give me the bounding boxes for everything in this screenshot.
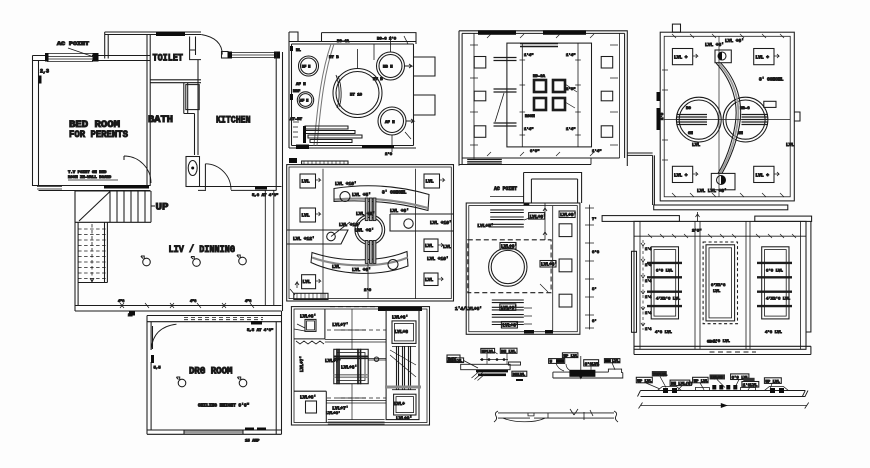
circle left	[676, 97, 721, 142]
kitchen door arc top	[201, 35, 222, 55]
right panel slats vertical	[392, 346, 416, 389]
svg-text:LVL +8': LVL +8'	[356, 211, 375, 217]
living right wall inner lines	[265, 191, 274, 306]
TV point underline	[68, 179, 118, 181]
top slat 2	[490, 217, 524, 220]
leader top-right circle	[391, 36, 409, 52]
dark square TR	[553, 80, 565, 92]
window bedroom bottom	[37, 187, 62, 190]
detail1 right step bar	[508, 362, 520, 365]
DRG bottom wall	[147, 430, 282, 434]
plan A curved wall (gray double)	[314, 44, 334, 146]
top-left room	[294, 309, 325, 339]
wall bedroom top	[33, 56, 151, 61]
black tick below tab corner	[524, 203, 530, 205]
bedroom door leaf	[123, 156, 125, 160]
detail1 dark cluster rows	[476, 370, 508, 373]
bottom band dashed center	[710, 351, 757, 353]
right panel outer	[386, 311, 419, 420]
plan D outer rect	[459, 31, 627, 166]
black tick kitchen bottom	[255, 187, 267, 190]
panel right bars	[757, 263, 792, 306]
svg-text:AF H: AF H	[385, 121, 395, 125]
plan E right mid square	[764, 101, 776, 107]
DRG bottom window band	[184, 431, 243, 435]
plan E left wall black marks	[657, 92, 661, 101]
geyser oval	[188, 161, 197, 176]
detail3 left notch	[695, 388, 709, 391]
svg-text:7': 7'	[592, 217, 597, 222]
LVL square MR	[424, 239, 438, 252]
inner curved detail in big circle	[336, 75, 339, 108]
svg-text:LVL +: LVL +	[674, 172, 688, 178]
DRG top dashed window	[184, 318, 263, 320]
plan B bottom center line	[367, 262, 369, 299]
svg-text:LVL+8': LVL+8'	[326, 411, 340, 416]
svg-text:LVL: LVL	[425, 243, 433, 249]
LVL square TR	[754, 49, 774, 65]
dimension line right of F	[589, 205, 591, 330]
tick marks on line	[648, 234, 796, 238]
LVL square BR	[754, 166, 774, 182]
UP leader	[151, 205, 155, 207]
plan F outer rect	[466, 203, 580, 334]
svg-text:DNLVL: DNLVL	[513, 374, 526, 378]
right strip verticals	[552, 206, 554, 332]
plan B inner verticals	[323, 169, 416, 299]
svg-text:4'6 LVL: 4'6 LVL	[765, 330, 782, 335]
detail1 chain row	[481, 358, 484, 361]
svg-text:1'4": 1'4"	[524, 53, 534, 58]
plan C leader diagonals right	[390, 350, 416, 377]
leader bottom-right circle	[392, 132, 411, 152]
svg-text:LVL: LVL	[443, 244, 451, 250]
tick crosses on walls	[470, 45, 618, 145]
svg-text:3' CONCEL: 3' CONCEL	[382, 190, 407, 196]
detail3 left cluster	[657, 387, 681, 391]
svg-text:BATH: BATH	[148, 115, 173, 126]
panel center frame	[706, 245, 735, 321]
bottom-left room	[294, 391, 326, 422]
plan F top tab	[524, 173, 582, 204]
left protrusion	[287, 230, 348, 244]
svg-text:1'4/LVL+8': 1'4/LVL+8'	[455, 306, 482, 312]
detail2 main bar	[553, 369, 623, 378]
detail2 vertical leader	[580, 356, 582, 378]
right squares	[601, 57, 613, 69]
svg-text:T.V POINT ON BED: T.V POINT ON BED	[68, 171, 107, 175]
bottom slats	[492, 300, 524, 303]
plan D right inner vertical	[619, 33, 621, 158]
svg-text:RB-6: RB-6	[740, 107, 750, 111]
tick crosses on inner verticals	[520, 60, 581, 135]
leader left	[331, 222, 350, 237]
detail2 dark cluster	[569, 370, 595, 377]
plan E top-left tab	[672, 24, 680, 32]
svg-text:LVL+8': LVL+8'	[300, 314, 316, 320]
right panel gray band	[385, 386, 421, 389]
plan G divider 1	[695, 221, 700, 349]
detail4 right marks	[570, 409, 593, 420]
DRG top wall	[147, 316, 282, 322]
svg-text:6'0 LVL: 6'0 LVL	[656, 269, 673, 274]
svg-text:2'0: 2'0	[385, 152, 393, 157]
detail1 label box DN LVL	[500, 348, 517, 353]
svg-text:AT-BT: AT-BT	[290, 118, 303, 122]
detail3 label boxes	[636, 377, 652, 383]
bottom-left inner square	[306, 401, 317, 413]
plan G right wall inner	[800, 221, 802, 349]
band top anchor box	[715, 50, 731, 63]
svg-text:RB H: RB H	[383, 66, 393, 70]
slats right circle	[742, 115, 769, 125]
plan E left wall arrows	[662, 70, 668, 160]
svg-text:AF H: AF H	[296, 83, 306, 87]
zigzag below top-left room	[296, 341, 324, 344]
svg-text:LVL: LVL	[426, 179, 434, 185]
svg-text:LVL+7': LVL+7'	[299, 356, 305, 372]
svg-text:ROOM: ROOM	[525, 115, 535, 119]
kitchen door leaf	[204, 164, 206, 190]
window end caps	[45, 53, 49, 62]
dark square TL	[534, 80, 546, 92]
svg-text:LVL +: LVL +	[674, 55, 688, 61]
svg-text:CEILING HEIGHT 9'6": CEILING HEIGHT 9'6"	[198, 403, 250, 409]
upper curved band	[334, 186, 429, 211]
boxed label LVL+8 bottom	[501, 322, 517, 329]
switch tick bedroom left wall	[39, 76, 42, 84]
detail3 main bar	[638, 391, 809, 397]
svg-text:ROOM IN-WALL BOARD: ROOM IN-WALL BOARD	[68, 176, 112, 180]
plan C side label right (B2X)	[447, 355, 460, 362]
stair lower bottom	[78, 282, 107, 284]
svg-text:LVL: LVL	[612, 360, 620, 364]
plan E outer rect	[660, 32, 794, 201]
svg-text:2'6": 2'6"	[692, 229, 702, 234]
svg-text:1'4: 1'4	[645, 311, 651, 316]
right protrusion	[390, 214, 454, 231]
stair center dashed rail	[91, 224, 93, 282]
slats left circle	[676, 115, 707, 125]
center vertical line	[718, 36, 720, 197]
wall bedroom left (double)	[33, 56, 39, 187]
svg-text:LVL +5': LVL +5'	[352, 192, 371, 198]
svg-text:HT B: HT B	[373, 78, 383, 82]
plan G left tab band	[602, 216, 679, 222]
svg-text:LVL +9': LVL +9'	[725, 38, 744, 44]
svg-text:6H: 6H	[688, 132, 693, 136]
geyser dot	[191, 167, 194, 170]
vertical slats below circle	[365, 241, 376, 264]
svg-text:LVL +10': LVL +10'	[430, 220, 452, 226]
band bottom anchor box	[711, 173, 735, 189]
circle top-right	[377, 52, 405, 80]
plan C center vertical line	[338, 309, 366, 420]
detail3 right notch	[741, 388, 756, 391]
leader diagonals from squares	[565, 84, 577, 108]
plan E right tab	[794, 112, 800, 121]
plan B outer rect	[287, 165, 454, 301]
boxed label LVL+9 top right	[559, 211, 575, 218]
detail1 label box 6'0LVL	[447, 358, 464, 363]
AC POINT leader	[68, 48, 94, 57]
plan A small arrows left	[293, 122, 299, 137]
svg-text:1'4: 1'4	[645, 279, 651, 284]
svg-text:LVL+7': LVL+7'	[332, 406, 348, 412]
svg-text:LVL +: LVL +	[756, 172, 770, 178]
svg-text:LVL+9': LVL+9'	[560, 212, 576, 218]
svg-text:HT 10: HT 10	[350, 94, 363, 98]
plan E tick marks top/bottom walls	[672, 34, 784, 197]
svg-text:KITCHEN: KITCHEN	[216, 116, 251, 127]
left jog rect	[632, 251, 637, 332]
svg-text:AC POINT: AC POINT	[494, 185, 518, 192]
panel left outer	[651, 247, 678, 319]
center square outer	[334, 349, 368, 383]
svg-text:LVL+6: LVL+6	[395, 329, 409, 335]
plan D left inner vertical	[473, 33, 475, 158]
plan D bottom inner hatch	[467, 160, 502, 165]
corridor solid lines	[325, 340, 386, 404]
svg-text:1'4: 1'4	[645, 295, 651, 300]
svg-text:FOR PERENTS: FOR PERENTS	[69, 130, 128, 141]
dark square BR	[553, 98, 565, 110]
left bar group 3	[494, 123, 517, 126]
plan E mid horizontal segments	[664, 119, 790, 121]
svg-text:6'6: 6'6	[592, 250, 600, 255]
svg-text:LVL+9': LVL+9'	[501, 305, 517, 311]
svg-text:4"6: 4"6	[245, 299, 251, 304]
svg-text:LVL+6': LVL+6'	[341, 365, 357, 371]
svg-text:AC POINT: AC POINT	[57, 40, 90, 47]
svg-text:5,5 AT 4'6": 5,5 AT 4'6"	[247, 328, 273, 333]
kitchen door frame square	[222, 52, 229, 59]
detail3 dimension line	[639, 403, 809, 409]
slat black ends	[303, 126, 306, 143]
plan A top-left tab	[289, 32, 298, 42]
top slat 3	[490, 224, 524, 227]
DRG right wall	[276, 311, 281, 434]
svg-text:DRG ROOM: DRG ROOM	[189, 367, 233, 378]
svg-text:LVL+8': LVL+8'	[300, 395, 316, 401]
svg-text:UPLVL: UPLVL	[482, 350, 495, 354]
svg-text:LVL: LVL	[332, 264, 340, 270]
detail4 right squiggle	[614, 411, 618, 422]
lower curved band	[311, 252, 408, 274]
svg-text:UP LVL: UP LVL	[563, 355, 578, 359]
svg-text:6'X2'6: 6'X2'6	[711, 283, 726, 288]
wall bedroom right / bath left (double)	[147, 35, 150, 187]
plan F bottom black marks	[524, 330, 534, 334]
plan A bottom black marks	[296, 145, 309, 150]
svg-text:LVL+6': LVL+6'	[541, 262, 557, 268]
plan C top dark band	[378, 307, 422, 311]
svg-text:LVL +12': LVL +12'	[293, 236, 315, 242]
black tick living wall left	[129, 311, 135, 316]
plan G left wall inner	[639, 221, 641, 349]
svg-text:LVL +8': LVL +8'	[705, 42, 724, 48]
svg-text:UP LVL: UP LVL	[765, 380, 780, 384]
plan G divider 2	[746, 221, 750, 349]
svg-text:8': 8'	[592, 287, 597, 292]
left bar group 2	[494, 89, 517, 92]
svg-text:LVL: LVL	[692, 142, 700, 148]
circle right	[723, 97, 768, 142]
svg-text:1'4: 1'4	[645, 247, 651, 252]
kitchen bottom wall right part	[231, 189, 276, 191]
svg-text:LVL +: LVL +	[756, 55, 770, 61]
svg-text:BH: BH	[738, 132, 743, 136]
svg-text:LVL+5': LVL+5'	[477, 223, 493, 229]
circle in upper band	[340, 192, 350, 202]
arrow marks right circles	[404, 64, 414, 123]
svg-text:DN LVL: DN LVL	[501, 350, 516, 354]
fan symbol 3	[239, 257, 247, 265]
detail1 DN LVL box right	[512, 371, 527, 376]
plan B corner arrow	[290, 282, 299, 295]
svg-text:LVL+7': LVL+7'	[332, 322, 348, 328]
svg-text:1'4": 1'4"	[566, 53, 576, 58]
boxed label LVL+9 bottom	[500, 304, 516, 311]
svg-text:LVL: LVL	[302, 213, 310, 219]
panel left bars	[647, 263, 682, 306]
left bar group 1	[494, 58, 517, 61]
DRG left wall	[147, 316, 151, 435]
svg-text:LVL: LVL	[713, 290, 721, 294]
plan G bottom band	[634, 346, 811, 354]
svg-text:6'0LVL: 6'0LVL	[448, 359, 463, 364]
svg-text:BC-4A: BC-4A	[337, 40, 350, 44]
svg-text:6': 6'	[592, 319, 597, 324]
wall living bottom (double)	[75, 306, 282, 312]
plan D top black bars	[478, 30, 516, 35]
detail4 tick	[547, 413, 549, 418]
bedroom door arc (bottom right)	[124, 156, 151, 183]
black mark below plan A corner	[289, 158, 297, 163]
switch tick DRG left	[151, 355, 154, 363]
detail2 box UP LVL right	[604, 359, 620, 363]
dashed rect	[468, 240, 551, 293]
svg-text:LVL+9': LVL+9'	[530, 214, 546, 220]
svg-text:6'0": 6'0"	[530, 149, 540, 154]
band top anchor circle	[718, 52, 726, 60]
detail2 label UP LVL box	[562, 353, 578, 358]
svg-text:1'4: 1'4	[645, 327, 651, 332]
geyser fixture rect	[186, 157, 200, 187]
svg-text:LVL+7': LVL+7'	[325, 358, 341, 364]
plan A left wall black ticks	[290, 46, 293, 51]
band bottom anchor circle	[717, 176, 726, 185]
closet left wall	[105, 32, 109, 59]
plan G tick line	[634, 235, 806, 237]
wall kitchen bottom	[198, 187, 282, 191]
detail4 left squiggle	[494, 411, 498, 422]
center square inner	[337, 353, 365, 381]
svg-text:1'4": 1'4"	[566, 127, 576, 132]
fan symbol drg 1	[178, 379, 186, 387]
svg-text:RF H: RF H	[302, 66, 310, 70]
svg-text:4"6: 4"6	[118, 299, 124, 304]
detail1 leader from box	[464, 361, 478, 369]
stair upper treads	[110, 191, 151, 222]
plan A bottom wall	[289, 146, 416, 149]
svg-text:AF H: AF H	[300, 100, 308, 104]
svg-text:RBF: RBF	[293, 90, 301, 94]
DRG door arc	[151, 324, 176, 349]
connector square to right panel	[368, 359, 386, 361]
svg-text:2'0": 2'0"	[566, 87, 576, 92]
black ticks DRG bottom	[245, 428, 254, 431]
stair landing rect	[75, 191, 151, 222]
svg-text:UP: UP	[156, 203, 169, 214]
svg-text:BC-6 2'0: BC-6 2'0	[377, 37, 397, 42]
circle bottom-right	[378, 107, 406, 135]
svg-text:2,3: 2,3	[40, 69, 49, 75]
fan symbol 2	[193, 259, 201, 267]
fan symbol drg 2	[239, 379, 247, 387]
detail1 small mark	[516, 379, 523, 381]
circle top-left	[299, 56, 319, 76]
LVL square ML	[300, 208, 316, 222]
ledge left of tab	[490, 197, 524, 203]
svg-text:BL: BL	[296, 49, 301, 53]
curved band line 1	[721, 63, 741, 174]
svg-text:LVL: LVL	[786, 142, 794, 148]
plan G top band	[654, 205, 788, 210]
detail3 center dark marks	[712, 385, 716, 390]
detail1 label box UP LVL	[481, 348, 495, 353]
DRG left wall lower	[150, 362, 152, 430]
svg-text:LVL: LVL	[302, 179, 310, 185]
toilet duct niche	[190, 37, 201, 60]
LVL square BR	[424, 273, 438, 286]
leader line big circle label	[358, 44, 375, 69]
detail3 dim arrow center	[721, 403, 728, 408]
vertical slats above circle	[365, 198, 376, 221]
right squares	[559, 224, 572, 237]
plan D inner big rect	[507, 43, 592, 147]
plan A right wall segments	[414, 57, 436, 115]
boxed label LVL+6 right	[540, 261, 556, 268]
detail4 middle step	[528, 413, 534, 416]
svg-text:2'0: 2'0	[660, 112, 665, 120]
boxed label LVL+6	[500, 243, 516, 250]
detail4 sag curve	[503, 418, 545, 422]
svg-text:TOILET: TOILET	[153, 54, 184, 65]
svg-text:LVL +18': LVL +18'	[339, 222, 361, 228]
wall toilet bottom	[150, 80, 201, 83]
LVL square BL	[302, 275, 316, 289]
bold wall segment below TV point	[104, 185, 149, 189]
lower band gray stripe	[312, 258, 408, 266]
plan F leader arrows	[524, 217, 548, 324]
plan C outer rect	[291, 307, 429, 425]
window caps kitchen	[228, 52, 232, 59]
vent black bar toilet top	[156, 32, 185, 36]
plan G right outer line	[806, 221, 811, 332]
plan C bottom window	[328, 420, 385, 424]
top slat 1	[490, 210, 524, 213]
svg-text:1'6LVL: 1'6LVL	[743, 383, 758, 388]
bath duct box	[186, 85, 199, 110]
left squares	[474, 57, 486, 69]
svg-text:15 AMP: 15 AMP	[245, 440, 260, 444]
svg-text:LVL +8': LVL +8'	[355, 228, 374, 234]
DRG door leaf	[152, 326, 154, 349]
left dashed arrows column	[642, 240, 644, 330]
top inner dark bar	[520, 44, 558, 47]
curved band line 2	[716, 63, 736, 173]
